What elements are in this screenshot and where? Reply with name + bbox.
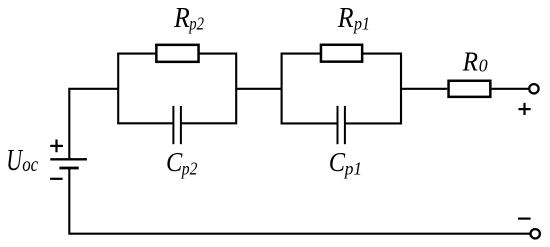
svg-text:p1: p1 [352, 13, 370, 33]
svg-text:R: R [173, 3, 190, 34]
svg-text:p2: p2 [180, 159, 197, 179]
svg-text:C: C [329, 147, 346, 177]
svg-text:oc: oc [22, 152, 39, 176]
svg-text:p1: p1 [343, 159, 362, 179]
svg-text:R: R [462, 46, 478, 77]
svg-text:C: C [166, 147, 183, 177]
svg-text:R: R [337, 3, 354, 34]
svg-text:0: 0 [479, 55, 488, 75]
svg-text:U: U [6, 143, 23, 177]
svg-text:p2: p2 [188, 13, 204, 33]
